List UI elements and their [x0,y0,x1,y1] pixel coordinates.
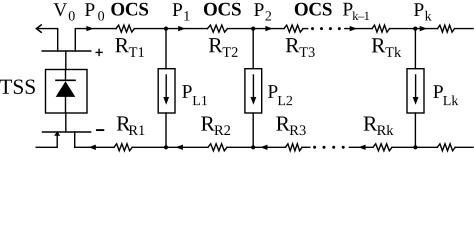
label PL2 [267,82,293,109]
svg-text:OCS: OCS [294,0,332,20]
load PL1 box [158,69,175,113]
svg-text:P: P [84,0,95,21]
resistor RR3 [286,144,303,151]
wire node P0 stub [75,29,116,51]
wire dots to RRk [349,146,373,148]
svg-text:OCS: OCS [110,0,148,20]
diode D1 cathode bar [56,79,75,81]
label RR3 [276,112,307,139]
node Pk junction dot [413,27,417,31]
wire TSS bottom terminal rail [43,131,91,133]
label RT3 [285,33,315,61]
wire to right edge bottom [455,146,473,148]
wire RT1 to P1 [134,28,166,30]
label RR1 [116,112,145,139]
svg-text:L2: L2 [277,94,293,109]
resistor RT1 [116,25,134,32]
svg-text:L1: L1 [192,94,208,109]
svg-text:TSS: TSS [0,75,36,99]
wire top-left output with left arrow to V0 [37,29,58,51]
node P2 bottom junction dot [251,145,255,149]
load PL2 current arrow (down) [252,75,254,98]
label PLk [433,82,459,109]
label PL1 [182,82,208,109]
resistor RT3 [284,25,303,32]
svg-text:R: R [208,33,223,57]
svg-text:1: 1 [183,9,190,24]
return arrow toward P1 (left) [176,145,183,150]
svg-text:OCS: OCS [203,0,241,20]
wire TSS bottom lead [65,113,67,132]
svg-text:V: V [53,0,67,21]
label RR2 [200,112,230,139]
ellipsis dots bottom [313,146,345,149]
wire Pk to bottom-right resistor [415,146,437,148]
wire node P2 drop [252,29,254,69]
current arrow after P2 (right) [265,26,272,31]
wire RR3 stub bottom [302,146,310,148]
plus terminal sign [96,49,102,55]
svg-text:k: k [425,10,432,25]
node P2 junction dot [251,27,255,31]
load PL2 box [245,69,262,113]
wire P1 to RT2 [166,28,208,30]
svg-text:P: P [254,0,265,21]
wire RR2 to P2 bottom [227,146,253,148]
label RT1 [115,33,145,61]
svg-text:Rk: Rk [377,123,395,139]
wire load PL1 to bottom [165,113,167,147]
svg-text:T2: T2 [222,45,238,61]
wire RR1 to P1 bottom [132,146,166,148]
svg-text:P: P [172,0,183,21]
wire P2 to RT3 [253,28,284,30]
svg-text:Tk: Tk [385,45,402,61]
svg-text:R1: R1 [128,123,145,139]
label Pk-1 [342,0,369,23]
wire bottom-left return with up arrow [36,135,57,147]
return arrow toward TSS (left) [89,145,96,150]
current arrow after Pk (right) [420,26,427,31]
wire node Pk drop [414,29,416,69]
wire TSS top lead [65,51,67,70]
svg-text:P: P [413,0,424,21]
svg-text:R3: R3 [289,123,306,139]
resistor RR2 [208,144,227,151]
resistor RR1 [114,144,132,151]
svg-text:k–1: k–1 [352,9,369,23]
minus terminal sign [97,129,103,131]
svg-text:R: R [115,33,130,57]
wire node stub bottom [75,132,114,147]
resistor top-right (continues) [438,25,455,32]
label P1 [172,0,190,24]
wire to right edge top [455,28,474,30]
current arrow into RT1 (right) [86,26,93,31]
svg-text:0: 0 [68,9,75,24]
svg-text:P: P [182,82,193,103]
wire P2 to RR3 bottom [253,146,285,148]
wire load PLk to bottom [414,113,416,147]
label RTk [371,33,402,61]
load PLk box [407,69,424,113]
load PLk current arrow (down) [415,75,417,98]
return current arrow (up) [54,131,60,136]
return arrow before RRk (left) [358,145,365,150]
label Pk [413,0,431,25]
wire RT3 stub [303,28,308,30]
current arrow at Pk-1 (right) [350,26,357,31]
label RRk [363,112,394,139]
wire P1 to RR2 bottom [166,146,208,148]
label P2 [254,0,272,25]
wire Pk to next resistor [415,28,437,30]
resistor bottom-right (continues) [437,144,455,151]
svg-text:R: R [371,33,386,57]
resistor RTk [372,25,390,32]
wire load PL2 to bottom [252,113,254,147]
diode D1 triangle [56,81,76,97]
svg-text:T3: T3 [299,45,315,61]
resistor RRk [373,144,392,151]
diode D1 bottom lead [65,97,67,113]
node Pk bottom junction dot [413,145,417,149]
resistor RT2 [208,25,228,32]
wire RRk to Pk bottom [392,146,415,148]
node P1 bottom junction dot [164,145,168,149]
svg-text:T1: T1 [129,45,145,61]
node P1 junction dot [164,27,168,31]
node P0 output arrow (open chevron, left) [36,25,41,32]
svg-text:2: 2 [265,10,272,25]
current arrow after P1 (right) [178,26,185,31]
wire RT2 to P2 [228,28,254,30]
wire RTk to Pk [390,28,416,30]
wire TSS top terminal rail [42,50,91,52]
label V0 [53,0,75,24]
svg-text:0: 0 [98,9,105,24]
label RT2 [208,33,238,61]
return arrow toward P2 (left) [260,145,267,150]
wire Pk-1 segment [345,28,372,30]
label P0 [84,0,104,24]
svg-text:R2: R2 [214,123,231,139]
load PL1 current arrow (down) [165,75,167,98]
TSS surge suppressor box [46,70,88,114]
wire node P1 drop [165,29,167,69]
diode D1 anode lead [65,70,67,81]
svg-text:Lk: Lk [443,94,459,109]
svg-text:R: R [285,33,300,57]
ellipsis dots top [311,27,341,30]
